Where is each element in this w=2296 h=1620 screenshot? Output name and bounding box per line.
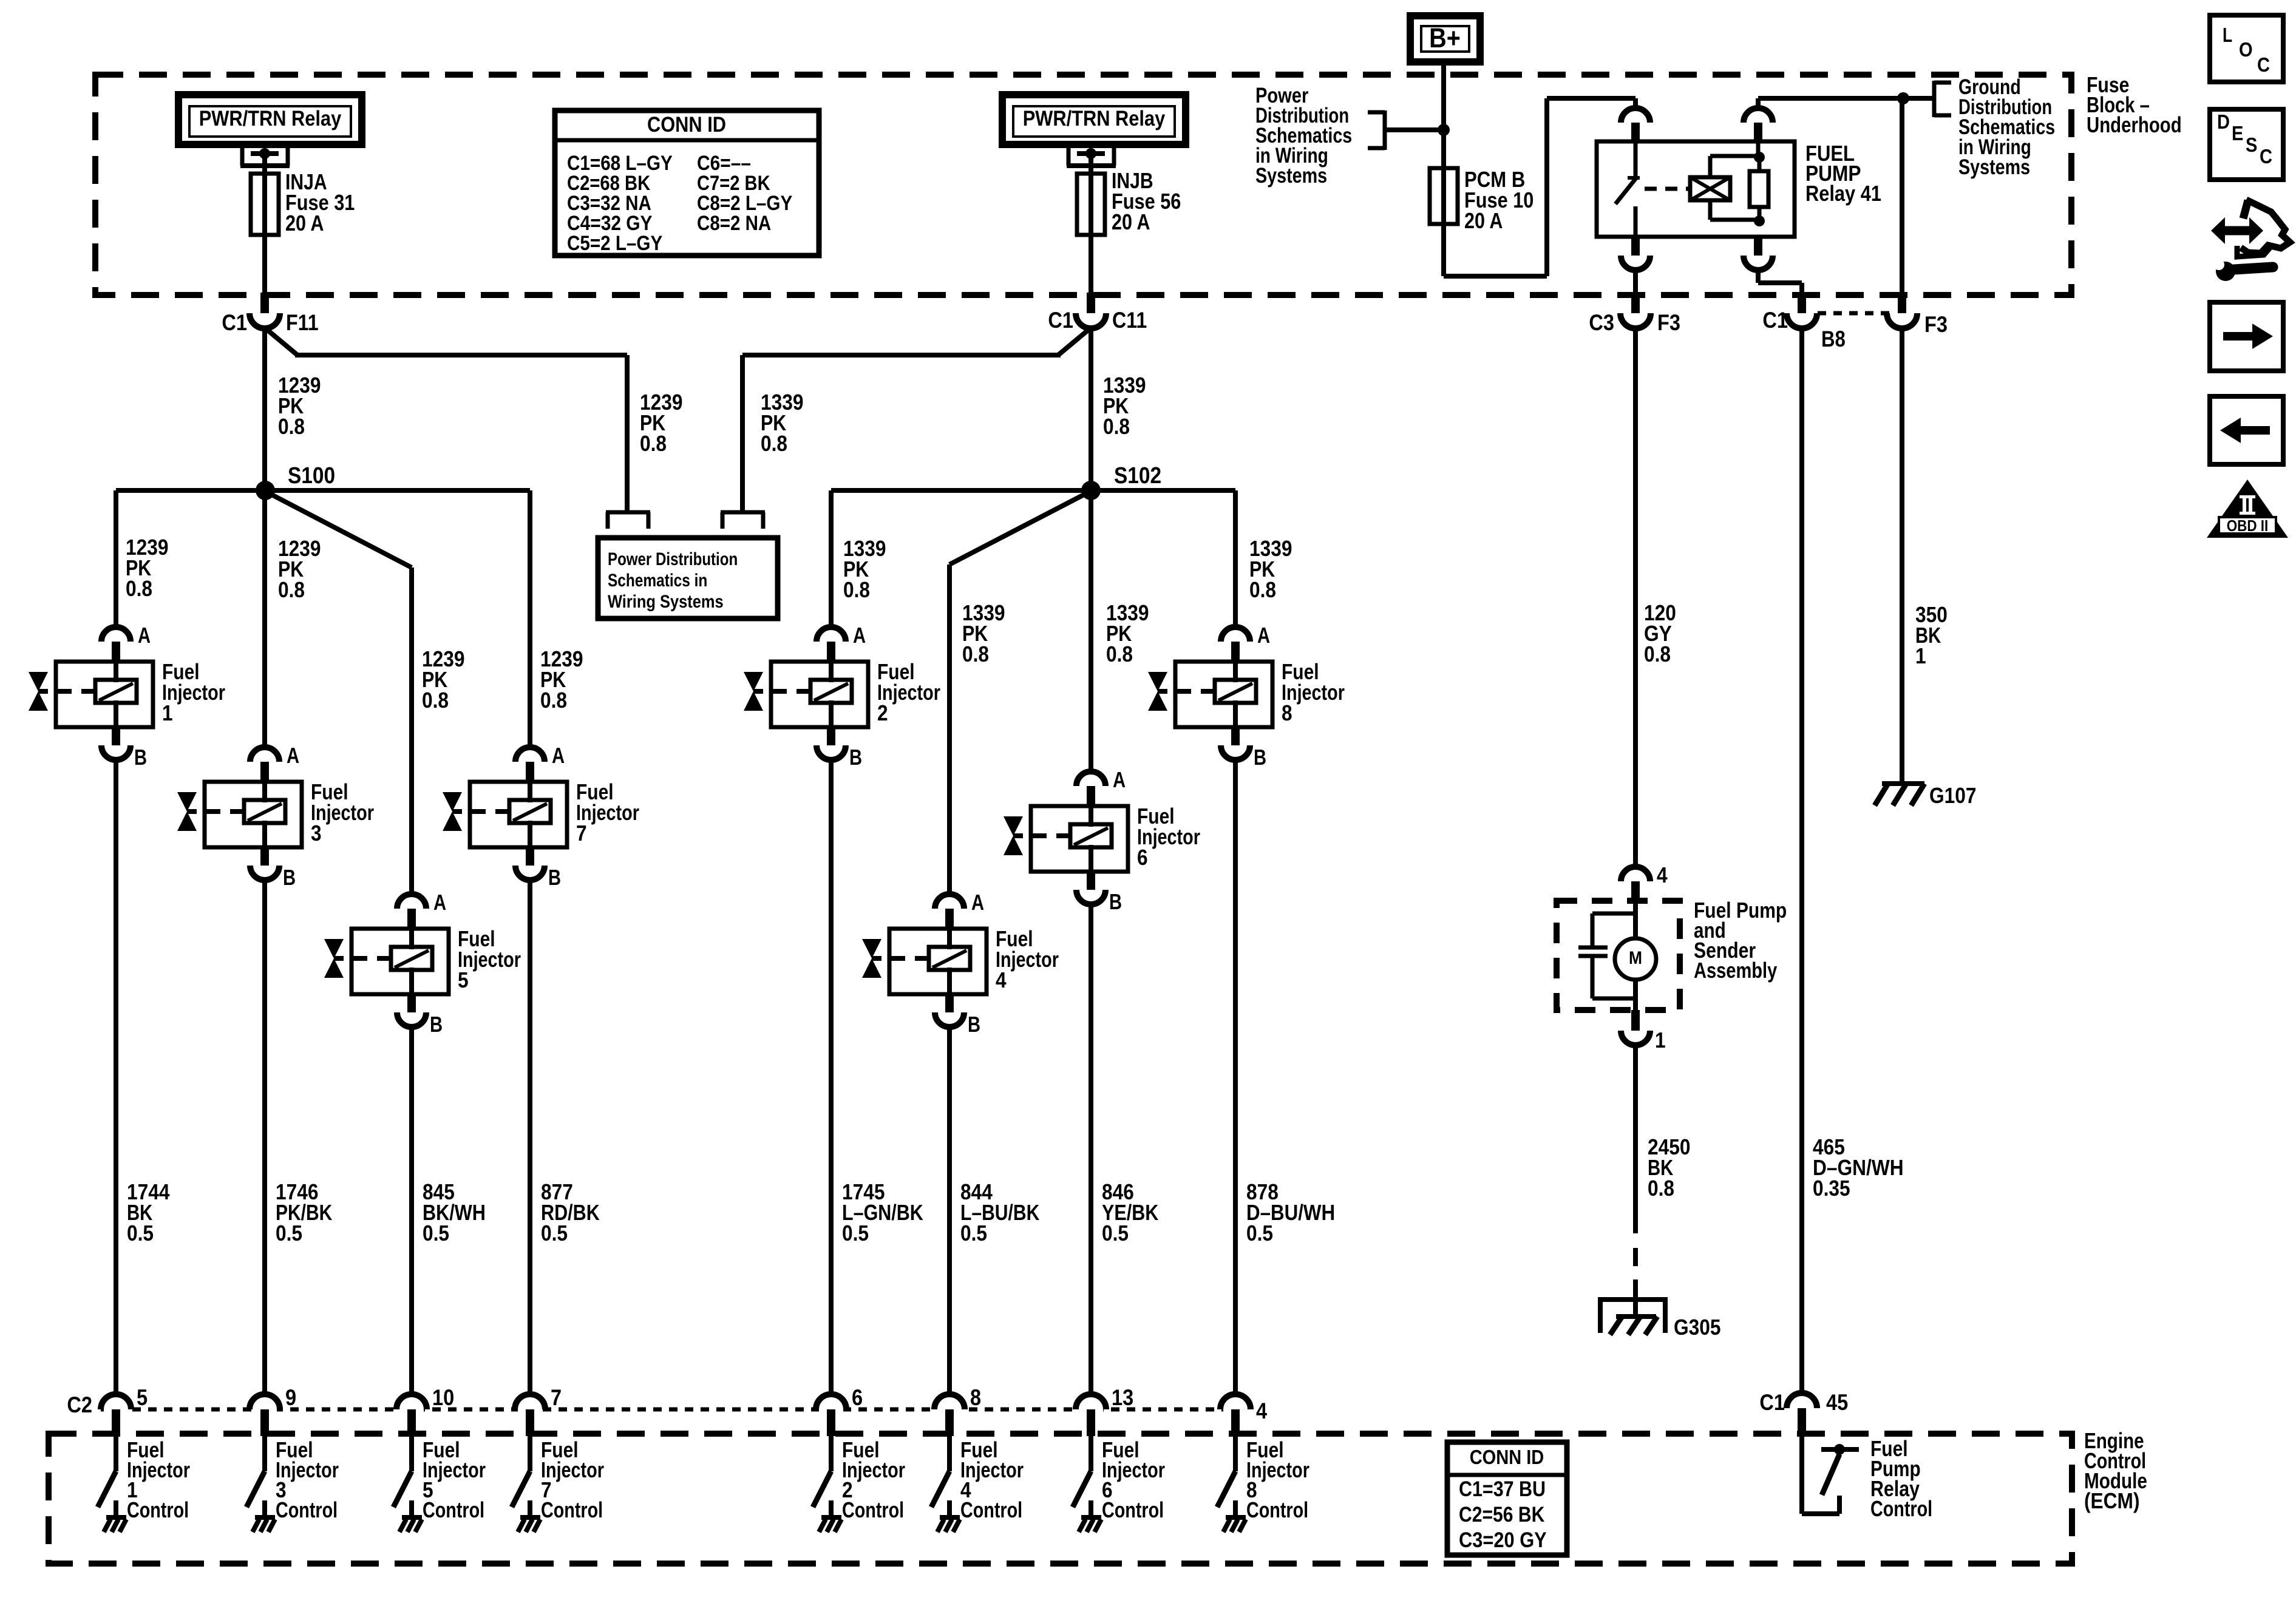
wire 120 GY from C3 F3 to fuel pump — [1633, 328, 1638, 868]
fuse INJA Fuse 31 20 A — [251, 169, 355, 236]
label 1239 PK 0.8 injector 5 feed — [422, 646, 465, 713]
ground symbol injector 3 driver — [253, 1517, 275, 1532]
fuel injector 6 solenoid — [1004, 767, 1200, 914]
svg-text:M: M — [1629, 948, 1642, 968]
ECM driver switch fuel injector 3 control — [246, 1436, 265, 1517]
icon DESC — [2210, 109, 2283, 180]
wire S102 diagonal to injector 4 — [949, 492, 1090, 895]
ground symbol injector 8 driver — [1223, 1517, 1246, 1532]
ECM connector pin 8 injector 4 — [934, 1385, 981, 1436]
junction dot ground distribution tap — [1897, 92, 1909, 104]
svg-text:Control: Control — [541, 1497, 603, 1522]
svg-text:C1: C1 — [222, 310, 247, 335]
ECM connector pin 5 injector 1 — [101, 1385, 148, 1436]
wire 1339 PK from C1 C11 to S102 and injector 6 — [1089, 328, 1093, 773]
svg-text:B: B — [283, 865, 296, 890]
svg-text:B8: B8 — [1821, 327, 1846, 351]
wire 350 BK down through F3 — [1900, 98, 1904, 299]
ground symbol injector 6 driver — [1079, 1517, 1101, 1532]
wire 350 BK to G107 — [1900, 328, 1904, 784]
label Fuel Injector 1 Control — [127, 1437, 190, 1522]
relay 2 terminal cup with pin — [1067, 146, 1116, 166]
fuel injector 7 solenoid — [443, 743, 639, 890]
fuel injector 4 solenoid — [862, 890, 1059, 1037]
splice S102 — [1081, 463, 1161, 500]
fuel injector 5 solenoid — [324, 890, 521, 1037]
svg-text:C11: C11 — [1112, 308, 1147, 333]
label Fuel Pump and Sender Assembly — [1694, 898, 1787, 983]
label 1239 PK 0.8 injector 7 feed — [540, 646, 583, 713]
svg-text:Systems: Systems — [1958, 155, 2030, 179]
svg-text:Control: Control — [423, 1497, 484, 1522]
connector pin 1 fuel pump — [1621, 1010, 1666, 1052]
wire injector 6 control to ECM — [1089, 904, 1093, 1395]
svg-text:7: 7 — [551, 1385, 562, 1410]
wire PCM B fuse to fuel pump relay — [1444, 98, 1635, 276]
svg-text:PWR/TRN Relay: PWR/TRN Relay — [199, 107, 342, 130]
svg-text:Control: Control — [1870, 1496, 1932, 1521]
label 878 D–BU/WH 0.5 — [1246, 1179, 1335, 1246]
wire relay41 coil feed from ground distribution — [1758, 98, 1903, 109]
svg-text:A: A — [552, 743, 565, 768]
svg-text:0.5: 0.5 — [276, 1221, 302, 1246]
icon back arrow — [2210, 396, 2283, 464]
svg-text:0.8: 0.8 — [278, 414, 305, 439]
ECM connector C1 pin 45 — [1759, 1390, 1848, 1435]
svg-text:B: B — [1254, 745, 1266, 770]
svg-text:0.5: 0.5 — [842, 1221, 869, 1246]
ECM driver switch fuel injector 6 control — [1073, 1436, 1091, 1517]
wire relay1 to fuse INJA — [262, 154, 267, 176]
label Fuel Injector 3 Control — [276, 1437, 339, 1522]
bracket to Ground Distribution reference — [1934, 81, 1951, 117]
svg-text:B: B — [134, 745, 147, 770]
svg-text:A: A — [1113, 767, 1126, 792]
svg-text:9: 9 — [285, 1385, 296, 1410]
svg-text:L: L — [2223, 24, 2232, 46]
fuel injector 1 solenoid — [29, 623, 225, 770]
label 465 D-GN/WH 0.35 — [1813, 1134, 1904, 1201]
svg-text:Control: Control — [127, 1497, 189, 1522]
svg-text:F3: F3 — [1657, 310, 1680, 335]
wire injector 7 control to ECM — [528, 880, 532, 1395]
bracket to Power Distribution reference — [1368, 110, 1441, 150]
label 120 GY 0.8 — [1644, 600, 1676, 666]
svg-text:C1: C1 — [1762, 308, 1788, 333]
CONN ID table bottom — [1447, 1442, 1567, 1555]
label 1339 PK 0.8 injector 4 feed — [962, 600, 1005, 666]
svg-text:S102: S102 — [1114, 463, 1161, 489]
svg-text:20 A: 20 A — [1464, 208, 1503, 233]
fuse block underhood dashed box — [95, 75, 2071, 295]
svg-text:45: 45 — [1826, 1390, 1848, 1415]
wire to ground distribution bracket — [1903, 96, 1934, 101]
ground symbol injector 7 driver — [518, 1517, 540, 1532]
label 1745 L–GN/BK 0.5 — [842, 1179, 923, 1246]
svg-text:0.5: 0.5 — [541, 1221, 568, 1246]
svg-text:0.5: 0.5 — [1246, 1221, 1273, 1246]
label Fuel Injector 5 Control — [423, 1437, 486, 1522]
svg-text:F3: F3 — [1924, 312, 1948, 337]
svg-text:A: A — [853, 623, 866, 648]
svg-text:6: 6 — [852, 1385, 863, 1410]
label 1239 PK 0.8 below F11 — [278, 373, 321, 439]
ground symbol injector 5 driver — [399, 1517, 422, 1532]
relay label box PWR/TRN Relay (middle) — [1002, 95, 1186, 144]
engine control module dashed box — [49, 1434, 2072, 1564]
wire injector 8 control to ECM — [1233, 760, 1238, 1395]
label Ground Distribution Schematics in Wiring Systems — [1958, 75, 2055, 179]
ECM driver switch fuel injector 7 control — [512, 1436, 530, 1517]
relay label box PWR/TRN Relay (left) — [178, 95, 362, 144]
svg-text:0.5: 0.5 — [423, 1221, 449, 1246]
svg-text:A: A — [1257, 623, 1270, 648]
svg-text:0.8: 0.8 — [640, 431, 667, 456]
wire 1239 PK from C1 F11 to S100 and injector 3 — [262, 328, 267, 748]
capacitor in fuel pump assembly — [1578, 913, 1635, 998]
svg-text:8: 8 — [1282, 700, 1292, 725]
wire injector 3 control to ECM — [262, 880, 267, 1395]
ground G107 — [1875, 783, 1977, 808]
label 846 YE/BK 0.5 — [1102, 1179, 1158, 1246]
svg-text:0.8: 0.8 — [1106, 642, 1133, 666]
svg-text:0.8: 0.8 — [1249, 577, 1276, 602]
label 1339 PK 0.8 injector 2 feed — [843, 536, 886, 602]
svg-text:C2=56 BK: C2=56 BK — [1459, 1503, 1544, 1527]
svg-text:B+: B+ — [1429, 22, 1461, 53]
svg-text:20 A: 20 A — [1112, 209, 1150, 234]
wire B+ down to PCM B fuse — [1441, 62, 1446, 170]
label 1239 PK 0.8 at power distribution drop — [640, 390, 683, 456]
label 1339 PK 0.8 injector 8 feed — [1249, 536, 1292, 602]
label Fuel Injector 8 Control — [1246, 1437, 1309, 1522]
ECM driver switch fuel injector 5 control — [393, 1436, 412, 1517]
wire S100 left to injector 1 — [116, 490, 265, 628]
label Fuel Pump Relay Control — [1870, 1436, 1932, 1521]
fuel pump and sender assembly dashed box — [1557, 901, 1680, 1010]
svg-text:1: 1 — [1915, 643, 1926, 668]
label 845 BK/WH 0.5 — [423, 1179, 486, 1246]
wire fuse INJA to connector C1 F11 — [262, 235, 267, 294]
svg-text:Control: Control — [276, 1497, 338, 1522]
label Fuse Block - Underhood — [2087, 72, 2182, 137]
label 877 RD/BK 0.5 — [541, 1179, 600, 1246]
svg-text:D: D — [2217, 110, 2230, 133]
svg-text:0.8: 0.8 — [1648, 1176, 1674, 1201]
ECM connector pin 4 injector 8 — [1220, 1394, 1267, 1436]
svg-text:E: E — [2232, 122, 2243, 144]
relay 1 terminal cup with pin — [240, 146, 290, 166]
fuel pump motor M — [1615, 901, 1656, 1010]
ground symbol injector 2 driver — [819, 1517, 841, 1532]
svg-text:0.8: 0.8 — [962, 642, 989, 666]
svg-text:6: 6 — [1137, 845, 1148, 870]
svg-text:8: 8 — [970, 1385, 981, 1410]
svg-text:B: B — [849, 745, 862, 770]
fuse INJB Fuse 56 20 A — [1077, 168, 1181, 235]
svg-text:5: 5 — [137, 1385, 148, 1410]
svg-text:20 A: 20 A — [285, 211, 324, 236]
svg-text:S100: S100 — [288, 463, 335, 489]
svg-text:OBD II: OBD II — [2227, 517, 2269, 535]
fuel injector 3 solenoid — [177, 743, 374, 890]
svg-text:0.5: 0.5 — [127, 1221, 154, 1246]
svg-text:G107: G107 — [1929, 783, 1977, 808]
svg-text:Relay 41: Relay 41 — [1805, 181, 1881, 206]
svg-text:Systems: Systems — [1255, 164, 1327, 188]
svg-text:0.8: 0.8 — [278, 577, 305, 602]
svg-text:Schematics in: Schematics in — [608, 571, 707, 591]
label Fuel Injector 4 Control — [960, 1437, 1024, 1522]
svg-text:C1=37 BU: C1=37 BU — [1459, 1477, 1546, 1501]
svg-text:S: S — [2246, 134, 2257, 156]
label 1239 PK 0.8 injector 3 feed — [278, 536, 321, 602]
wire relay2 to fuse INJB — [1089, 154, 1093, 176]
label Fuel Injector 7 Control — [541, 1437, 604, 1522]
connector pin 4 fuel pump — [1621, 863, 1668, 901]
wire relay41 pin 85 to C1 B8 — [1744, 237, 1802, 294]
ECM driver switch fuel injector 8 control — [1217, 1436, 1235, 1517]
label 350 BK 1 — [1915, 602, 1948, 668]
splice S100 — [256, 463, 335, 500]
connector C1 B8 left half — [1762, 293, 1817, 333]
ECM driver switch fuel injector 4 control — [931, 1436, 949, 1517]
svg-text:B: B — [430, 1012, 443, 1037]
wire fuse INJB to connector C1 C11 — [1089, 235, 1093, 294]
fuse PCM B Fuse 10 20 A — [1430, 167, 1533, 233]
svg-text:0.8: 0.8 — [126, 576, 152, 601]
svg-text:F11: F11 — [286, 310, 319, 335]
label Power Distribution Schematics in Wiring Systems (top) — [1255, 84, 1352, 188]
fuel injector 8 solenoid — [1148, 623, 1345, 770]
wire injector 5 control to ECM — [409, 1027, 414, 1395]
ECM driver switch fuel injector 1 control — [98, 1436, 116, 1517]
label 1239 PK 0.8 injector 1 feed — [126, 535, 169, 601]
svg-text:A: A — [971, 890, 984, 915]
connector B8 F3 right half — [1887, 293, 1948, 337]
wire S102 right to injector 8 — [1091, 490, 1235, 628]
svg-text:C: C — [2257, 53, 2270, 76]
icon LOC — [2210, 15, 2283, 82]
svg-text:4: 4 — [1256, 1398, 1267, 1423]
svg-text:C1: C1 — [1048, 308, 1073, 333]
wire 2450 BK to G305 — [1633, 1045, 1638, 1316]
label 1339 PK 0.8 injector 6 feed — [1106, 600, 1149, 666]
svg-text:10: 10 — [432, 1385, 454, 1410]
svg-text:A: A — [433, 890, 446, 915]
ground G305 — [1598, 1297, 1721, 1340]
icon forward arrow — [2210, 302, 2283, 371]
ground symbol injector 4 driver — [937, 1517, 960, 1532]
ECM connector pin 7 injector 7 — [515, 1385, 562, 1436]
svg-text:5: 5 — [458, 968, 469, 992]
connector line C2 dotted — [67, 1392, 1251, 1417]
fuel injector 2 solenoid — [744, 623, 940, 770]
ECM connector pin 6 injector 2 — [816, 1385, 863, 1436]
svg-text:13: 13 — [1112, 1385, 1133, 1410]
icon wiring diagnostics (arrow harness wrench) — [2211, 200, 2290, 281]
svg-text:A: A — [138, 623, 151, 648]
ground symbol injector 1 driver — [104, 1517, 126, 1532]
svg-text:3: 3 — [311, 821, 322, 846]
svg-text:0.8: 0.8 — [761, 431, 787, 456]
wire 465 D-GN/WH relay to ECM — [1799, 328, 1804, 1394]
ECM fuel pump relay control driver — [1802, 1435, 1859, 1514]
svg-text:C1: C1 — [1759, 1390, 1785, 1415]
svg-text:A: A — [287, 743, 299, 768]
label 844 L–BU/BK 0.5 — [960, 1179, 1039, 1246]
label 2450 BK 0.8 — [1648, 1134, 1691, 1201]
svg-text:7: 7 — [576, 821, 587, 846]
wire S100 right to injector 7 — [265, 490, 530, 748]
relay FUEL PUMP Relay 41 — [1597, 108, 1881, 237]
svg-text:2: 2 — [877, 700, 888, 725]
svg-text:Power Distribution: Power Distribution — [608, 549, 738, 569]
ECM connector pin 13 injector 6 — [1076, 1385, 1133, 1436]
label Fuel Injector 2 Control — [842, 1437, 905, 1522]
svg-text:4: 4 — [996, 968, 1007, 992]
svg-text:C2: C2 — [67, 1392, 92, 1417]
power node B+ — [1410, 16, 1480, 62]
label 1339 PK 0.8 at power distribution drop — [761, 390, 804, 456]
svg-text:C3=20 GY: C3=20 GY — [1459, 1528, 1547, 1552]
svg-text:Assembly: Assembly — [1694, 958, 1777, 983]
svg-text:C5=2 L–GY: C5=2 L–GY — [567, 232, 662, 255]
svg-text:0.8: 0.8 — [843, 577, 870, 602]
svg-text:G305: G305 — [1674, 1315, 1721, 1340]
wire injector 1 control to ECM — [114, 760, 118, 1395]
label 1339 PK 0.8 below C11 — [1103, 373, 1146, 439]
svg-text:B: B — [1109, 889, 1122, 914]
label 1746 PK/BK 0.5 — [276, 1179, 332, 1246]
svg-text:Control: Control — [1246, 1497, 1308, 1522]
svg-text:Wiring Systems: Wiring Systems — [608, 592, 724, 612]
connector C3 F3 — [1589, 293, 1680, 335]
svg-text:1: 1 — [1655, 1028, 1666, 1052]
svg-text:B: B — [968, 1012, 980, 1037]
connector C1 C11 — [1048, 293, 1147, 333]
svg-text:4: 4 — [1657, 863, 1668, 887]
svg-text:0.8: 0.8 — [1103, 414, 1130, 439]
svg-text:0.5: 0.5 — [960, 1221, 987, 1246]
svg-text:O: O — [2239, 38, 2253, 61]
wire relay41 pin 30 down to C3 F3 — [1621, 237, 1650, 294]
wire branch C11 to power distribution box — [742, 328, 1091, 514]
svg-text:0.5: 0.5 — [1102, 1221, 1129, 1246]
svg-text:C8=2 NA: C8=2 NA — [697, 212, 771, 235]
inline connector B8 dotted link — [1802, 313, 1902, 351]
svg-text:Control: Control — [1102, 1497, 1164, 1522]
svg-text:1: 1 — [162, 700, 173, 725]
ECM connector pin 9 injector 3 — [250, 1385, 296, 1436]
ECM driver switch fuel injector 2 control — [813, 1436, 831, 1517]
svg-text:(ECM): (ECM) — [2084, 1488, 2140, 1513]
wire S100 diagonal to injector 5 — [266, 492, 412, 895]
icon OBD II triangle — [2207, 480, 2288, 538]
junction dot B+ tap — [1438, 124, 1450, 136]
svg-text:Underhood: Underhood — [2087, 112, 2182, 137]
label 1744 BK 0.5 — [127, 1179, 170, 1246]
svg-text:0.8: 0.8 — [1644, 642, 1671, 666]
svg-text:B: B — [548, 865, 561, 890]
ECM connector pin 10 injector 5 — [396, 1385, 454, 1436]
CONN ID table top — [555, 110, 819, 256]
svg-text:PWR/TRN Relay: PWR/TRN Relay — [1023, 107, 1166, 130]
svg-text:0.35: 0.35 — [1813, 1176, 1850, 1201]
svg-text:Control: Control — [960, 1497, 1022, 1522]
svg-text:CONN ID: CONN ID — [647, 113, 726, 137]
reference box Power Distribution Schematics in Wiring Systems — [598, 512, 778, 619]
wire S102 left to injector 2 — [831, 490, 1091, 628]
svg-text:Control: Control — [842, 1497, 904, 1522]
svg-text:C: C — [2260, 145, 2272, 168]
label Engine Control Module (ECM) — [2084, 1428, 2147, 1513]
connector C1 F11 — [222, 293, 318, 335]
svg-text:CONN ID: CONN ID — [1470, 1446, 1544, 1468]
wire branch F11 to power distribution box — [265, 328, 627, 514]
wire injector 2 control to ECM — [829, 760, 834, 1395]
svg-text:C3: C3 — [1589, 310, 1614, 335]
wire injector 4 control to ECM — [947, 1027, 952, 1395]
label Fuel Injector 6 Control — [1102, 1437, 1165, 1522]
svg-text:0.8: 0.8 — [540, 688, 567, 713]
svg-text:0.8: 0.8 — [422, 688, 449, 713]
